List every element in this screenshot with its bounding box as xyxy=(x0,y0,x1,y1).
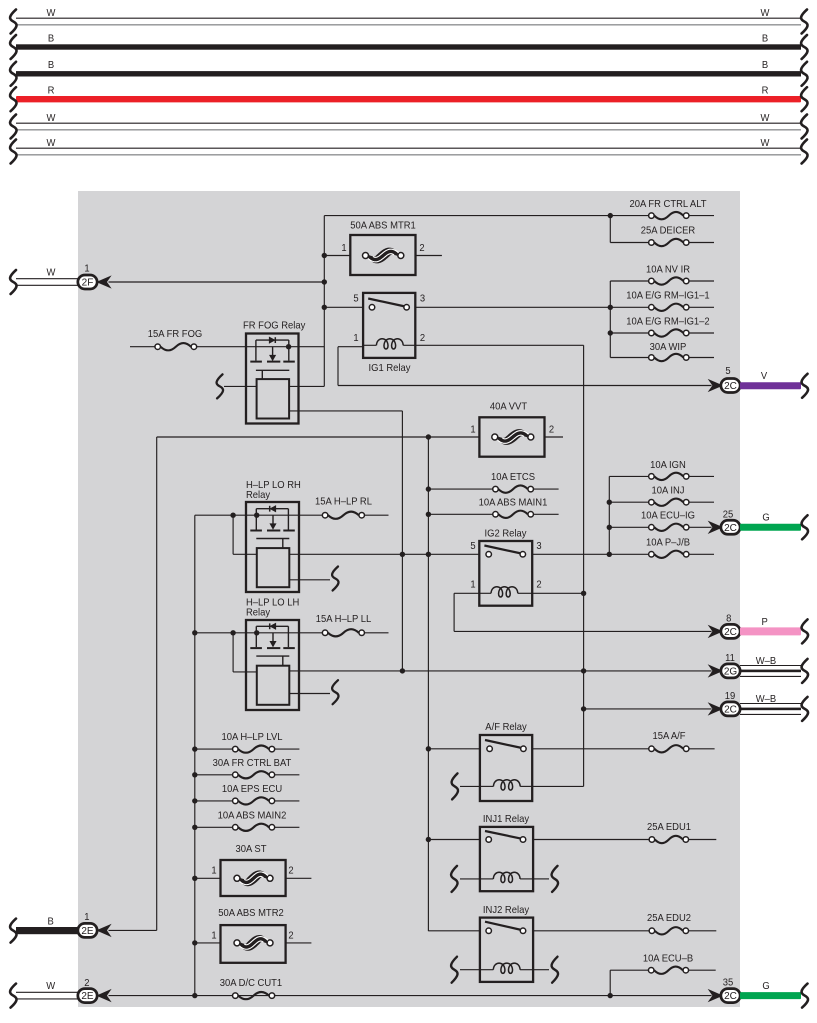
fuse bracket IGN group xyxy=(608,476,610,554)
connector 2E pin 2 xyxy=(78,978,109,1003)
svg-text:30A FR CTRL BAT: 30A FR CTRL BAT xyxy=(213,757,292,769)
fuse 30A D/C CUT1 xyxy=(220,977,283,999)
svg-text:50A ABS MTR1: 50A ABS MTR1 xyxy=(350,220,416,232)
svg-text:2: 2 xyxy=(419,243,425,255)
svg-text:19: 19 xyxy=(725,690,736,702)
fuse 30A WIP xyxy=(610,342,714,362)
svg-text:10A EPS ECU: 10A EPS ECU xyxy=(222,784,282,796)
wire bus B top to VVT xyxy=(157,436,480,438)
connector 2C pin 35 xyxy=(710,977,740,1003)
relay FR FOG diode rail xyxy=(256,337,289,343)
wire A/F coil to bus F xyxy=(532,785,583,787)
wire feed H-LP LH row xyxy=(192,630,246,635)
wire W-B (outside, 2C-19) xyxy=(740,694,808,721)
relay H-LP LO RH label xyxy=(246,480,301,502)
svg-text:1: 1 xyxy=(470,579,476,591)
junction NV-IR bank row2 xyxy=(608,305,613,310)
svg-text:11: 11 xyxy=(725,652,735,664)
fuse 30A FR CTRL BAT xyxy=(192,757,299,778)
svg-text:2C: 2C xyxy=(724,705,737,716)
svg-text:A/F Relay: A/F Relay xyxy=(485,722,526,734)
svg-text:W: W xyxy=(46,981,55,993)
svg-text:15A H–LP RL: 15A H–LP RL xyxy=(315,496,372,508)
svg-text:2G: 2G xyxy=(724,667,738,678)
svg-text:INJ2 Relay: INJ2 Relay xyxy=(483,905,529,917)
wire harness W6 (top, horizontal) xyxy=(10,137,807,163)
svg-text:1: 1 xyxy=(84,263,90,275)
svg-text:5: 5 xyxy=(353,293,359,305)
svg-text:25A EDU2: 25A EDU2 xyxy=(647,913,691,925)
fuse 10A ABS MAIN2 xyxy=(192,810,299,831)
wire IG1 pin2 to bus F xyxy=(415,344,583,346)
fuse 10A ETCS xyxy=(428,472,558,493)
relay FR FOG coil box xyxy=(257,379,290,418)
wire bus A to IG1 pin 5 xyxy=(324,306,363,308)
svg-text:INJ1 Relay: INJ1 Relay xyxy=(483,814,529,826)
junction IG1 pin5 row xyxy=(322,305,327,310)
relay FR FOG coil left stub xyxy=(217,374,257,398)
relay H-LP RH coil box xyxy=(257,548,290,587)
relay FR FOG through wire xyxy=(246,344,324,349)
svg-text:10A NV IR: 10A NV IR xyxy=(646,264,690,276)
junction ECU-IG row xyxy=(607,525,612,530)
relay H-LP LH coil feed jog xyxy=(233,633,257,672)
relay INJ1 coil left stub xyxy=(451,866,480,892)
svg-text:1: 1 xyxy=(353,333,359,345)
wire bus E (x=428) xyxy=(427,437,429,931)
fuse 25A EDU1 xyxy=(647,822,716,844)
fuse 10A INJ xyxy=(609,485,714,506)
fuse 20A FR CTRL ALT xyxy=(629,199,714,220)
svg-text:B: B xyxy=(48,33,55,45)
relay IG1 coil xyxy=(363,339,415,349)
wire bus E corner to INJ2 xyxy=(428,930,480,932)
svg-text:W: W xyxy=(761,137,770,149)
wire bus D (x=402, FR FOG out) xyxy=(401,411,403,671)
svg-text:20A FR CTRL ALT: 20A FR CTRL ALT xyxy=(629,199,706,211)
junction ETCS row xyxy=(426,486,431,491)
fuse 10A ABS MAIN1 xyxy=(428,497,558,518)
svg-text:W–B: W–B xyxy=(756,694,777,706)
relay IG2 coil xyxy=(479,587,532,597)
relay H-LP LH gate bar xyxy=(256,656,289,666)
svg-text:15A H–LP LL: 15A H–LP LL xyxy=(316,614,372,626)
svg-text:8: 8 xyxy=(726,613,732,625)
wire bottom row (2E-2 / D-C CUT1 / 2C-35) xyxy=(109,993,712,998)
wire bus C (x=195, fuse-bank feed) xyxy=(194,515,196,995)
relay H-LP LH lower stub xyxy=(289,680,338,704)
relay IG1 box xyxy=(353,293,425,374)
relay INJ1 box xyxy=(480,814,533,892)
svg-text:3: 3 xyxy=(420,293,426,305)
svg-text:10A P–J/B: 10A P–J/B xyxy=(646,537,690,549)
fuse 10A NV IR xyxy=(610,264,714,284)
svg-text:3: 3 xyxy=(536,541,542,553)
wire IG2 pin3 to P-J/B xyxy=(532,552,648,557)
relay H-LP LH diode rail xyxy=(256,623,288,629)
relay IG2 contact xyxy=(484,546,525,558)
wire harness W1 (top, horizontal) xyxy=(10,7,807,33)
junction A/F contact row xyxy=(426,746,431,751)
svg-text:25A DEICER: 25A DEICER xyxy=(641,225,696,237)
svg-text:2C: 2C xyxy=(724,627,737,638)
relay FR FOG legs+plates xyxy=(250,340,294,362)
svg-text:Relay: Relay xyxy=(246,607,270,619)
relay IG1 contact xyxy=(368,299,409,311)
junction block (gray box) xyxy=(78,191,740,1007)
fuse 30A ST xyxy=(192,844,311,896)
fuse bracket 20A/25A xyxy=(609,216,611,243)
relay INJ1 coil xyxy=(480,872,533,882)
junction ABS MAIN1 row xyxy=(426,512,431,517)
svg-text:FR FOG Relay: FR FOG Relay xyxy=(243,320,305,332)
svg-text:10A ECU–B: 10A ECU–B xyxy=(643,953,694,965)
fuse 10A P-J/B xyxy=(646,537,714,558)
relay H-LP LO RH box xyxy=(246,502,299,592)
svg-text:R: R xyxy=(48,85,55,97)
fuse 15A FR FOG xyxy=(130,329,246,351)
svg-text:W: W xyxy=(47,112,56,124)
fuse 25A EDU2 xyxy=(647,913,716,935)
wire IG1 pin1 jog to 2C-5 xyxy=(338,347,712,386)
svg-text:B: B xyxy=(48,60,55,72)
connector 2C pin 19 xyxy=(710,690,740,715)
svg-text:2: 2 xyxy=(288,930,294,942)
wire IG1 pin3 to fuse bank xyxy=(415,306,648,308)
svg-text:2: 2 xyxy=(420,333,426,345)
junction INJ1 contact row xyxy=(426,837,431,842)
wire feed H-LP RH row xyxy=(195,513,246,518)
relay INJ1 contact xyxy=(485,831,526,842)
svg-text:IG2 Relay: IG2 Relay xyxy=(485,528,527,540)
connector 2E pin 1 xyxy=(78,912,109,938)
fuse 15A H-LP RL xyxy=(299,496,389,519)
fuse 10A H–LP LVL xyxy=(192,732,299,753)
svg-text:1: 1 xyxy=(341,243,347,255)
relay H-LP RH coil feed jog xyxy=(233,515,257,554)
wire harness W5 (top, horizontal) xyxy=(10,112,807,138)
wire harness B2 (top, horizontal) xyxy=(10,33,807,59)
wire 2F to bus A xyxy=(109,281,325,283)
relay INJ1 coil right stub xyxy=(533,866,558,892)
wire 2E-1 to bus B xyxy=(109,929,157,931)
svg-text:G: G xyxy=(762,512,770,524)
svg-text:1: 1 xyxy=(211,930,217,942)
svg-text:2: 2 xyxy=(536,579,542,591)
svg-text:Relay: Relay xyxy=(246,490,270,502)
wire P (outside, 2C-8) xyxy=(740,617,808,644)
svg-text:5: 5 xyxy=(725,366,731,378)
wire harness B3 (top, horizontal) xyxy=(10,60,807,86)
svg-text:W: W xyxy=(761,7,770,19)
wire G (outside, 2C-25) xyxy=(740,512,808,539)
svg-text:B: B xyxy=(48,916,55,928)
relay H-LP LH coil box xyxy=(257,666,290,705)
wire bus A to 50A ABS MTR1 xyxy=(324,255,350,257)
junction on bus A top row xyxy=(608,213,613,218)
fuse 40A VVT xyxy=(470,401,563,457)
svg-text:W: W xyxy=(47,137,56,149)
svg-text:30A WIP: 30A WIP xyxy=(650,342,687,354)
relay FR FOG coil right wire to bus A xyxy=(289,385,324,387)
relay H-LP LH through wire xyxy=(246,630,299,635)
fuse bracket NV IR group xyxy=(609,281,611,358)
wire bus E to A/F xyxy=(428,748,480,750)
junction 50A ABS MTR1 row xyxy=(322,253,327,258)
wire bus F to 2C-19 xyxy=(581,706,712,711)
svg-text:2F: 2F xyxy=(82,278,94,289)
svg-text:30A D/C CUT1: 30A D/C CUT1 xyxy=(220,977,283,989)
connector 2F pin 1 xyxy=(78,263,109,289)
relay H-LP LH legs+plates xyxy=(250,626,294,648)
wire INJ2 pin to 25A EDU2 xyxy=(533,930,649,932)
svg-text:50A ABS MTR2: 50A ABS MTR2 xyxy=(218,908,284,920)
fuse 50A ABS MTR2 xyxy=(192,908,311,963)
svg-text:R: R xyxy=(762,85,769,97)
junction 2F row xyxy=(322,279,327,284)
junction VVT row / bus E xyxy=(426,434,431,439)
relay H-LP LO LH label xyxy=(246,597,299,619)
svg-text:W–B: W–B xyxy=(756,656,777,668)
svg-text:V: V xyxy=(761,371,768,383)
relay FR FOG gate bar xyxy=(256,370,289,379)
relay A/F coil left stub xyxy=(452,773,480,799)
wire H-LP RH out to IG2 pin5 xyxy=(289,552,479,557)
relay INJ2 coil left stub xyxy=(451,957,480,983)
svg-text:25A EDU1: 25A EDU1 xyxy=(647,822,691,834)
wire bus B (x=157, from 2E-1 up to VVT row) xyxy=(156,437,158,930)
svg-text:15A FR FOG: 15A FR FOG xyxy=(148,329,203,341)
relay H-LP RH through wire xyxy=(246,513,299,518)
wire INJ1 pin to 25A EDU1 xyxy=(533,839,649,841)
svg-text:10A ABS MAIN1: 10A ABS MAIN1 xyxy=(479,497,548,509)
fuse 10A EPS ECU xyxy=(192,784,299,805)
wire A/F pin to 15A A/F xyxy=(532,748,648,750)
connector 2C pin 5 xyxy=(710,366,740,393)
wire IG2 pin2 to bus F xyxy=(532,591,586,596)
junction INJ row xyxy=(607,500,612,505)
svg-text:10A E/G RM–IG1–1: 10A E/G RM–IG1–1 xyxy=(626,290,710,302)
svg-text:P: P xyxy=(762,617,769,629)
wire bus F (x=584, coil net) xyxy=(583,345,585,786)
svg-text:30A ST: 30A ST xyxy=(236,844,267,856)
svg-text:2C: 2C xyxy=(724,381,737,392)
relay INJ2 coil right stub xyxy=(533,957,558,983)
svg-text:2E: 2E xyxy=(81,926,94,937)
svg-text:10A E/G RM–IG1–2: 10A E/G RM–IG1–2 xyxy=(626,316,710,328)
svg-text:10A INJ: 10A INJ xyxy=(651,485,684,497)
relay H-LP LO LH box xyxy=(246,620,299,710)
junction bank row3 xyxy=(608,330,613,335)
connector 2C pin 8 xyxy=(710,613,740,638)
wire harness R4 (top, horizontal) xyxy=(10,85,807,111)
wire V (outside, 2C-5) xyxy=(740,371,808,398)
svg-text:G: G xyxy=(762,981,770,993)
relay H-LP RH legs+plates xyxy=(250,509,294,531)
wire G (outside, 2C-35) xyxy=(740,981,808,1008)
wire W-B (outside, 2G-11) xyxy=(740,656,808,683)
svg-text:5: 5 xyxy=(470,541,476,553)
relay INJ2 contact xyxy=(485,922,526,934)
relay INJ2 box xyxy=(480,905,533,982)
wire IG2 pin1 to 2C-8 xyxy=(454,593,711,631)
fuse 10A ECU-IG xyxy=(609,510,711,531)
wire H-LP LH out to 2G-11 xyxy=(289,668,711,673)
relay H-LP RH diode rail xyxy=(256,506,288,512)
svg-text:10A H–LP LVL: 10A H–LP LVL xyxy=(221,732,282,744)
svg-text:W: W xyxy=(761,112,770,124)
fuse 25A DEICER xyxy=(610,225,714,246)
svg-text:2: 2 xyxy=(288,865,294,877)
relay H-LP RH gate bar xyxy=(256,539,289,549)
svg-text:40A VVT: 40A VVT xyxy=(490,401,527,413)
svg-text:W: W xyxy=(47,267,56,279)
svg-text:10A ECU–IG: 10A ECU–IG xyxy=(641,510,695,522)
wire feed to 20A FR CTRL ALT (y=215.6) xyxy=(324,215,648,217)
svg-text:10A IGN: 10A IGN xyxy=(650,459,686,471)
svg-text:1: 1 xyxy=(470,424,476,436)
connector 2C pin 25 xyxy=(710,509,740,534)
wire bus A (x=324) xyxy=(323,216,325,387)
svg-text:1: 1 xyxy=(84,912,90,924)
wire bus E to INJ1 xyxy=(428,839,480,841)
svg-text:W: W xyxy=(47,7,56,19)
wire B to 2E-1 (outside) xyxy=(10,916,78,943)
wire W to 2E-2 (outside) xyxy=(10,981,78,1008)
relay FR FOG box xyxy=(243,320,305,424)
fuse bracket ECU-B xyxy=(609,970,611,995)
relay INJ2 coil xyxy=(480,963,533,973)
relay H-LP RH lower stub xyxy=(289,567,338,591)
fuse 10A E/G RM-IG1-2 xyxy=(610,316,714,336)
relay FR FOG output wire to bus D xyxy=(289,410,402,412)
svg-text:35: 35 xyxy=(723,977,734,989)
relay A/F coil xyxy=(480,780,532,790)
svg-text:10A ETCS: 10A ETCS xyxy=(491,472,535,484)
fuse 10A E/G RM-IG1-1 xyxy=(626,290,714,311)
svg-text:10A ABS MAIN2: 10A ABS MAIN2 xyxy=(218,810,287,822)
fuse 50A ABS MTR1 xyxy=(341,220,442,275)
svg-text:B: B xyxy=(762,33,769,45)
connector 2G pin 11 xyxy=(710,652,740,677)
fuse 15A H-LP LL xyxy=(299,614,389,637)
svg-text:2C: 2C xyxy=(724,991,737,1002)
relay A/F box xyxy=(480,722,532,801)
svg-text:2E: 2E xyxy=(81,991,94,1002)
fuse 10A ECU-B xyxy=(610,953,716,974)
svg-text:15A A/F: 15A A/F xyxy=(652,730,685,742)
svg-text:2C: 2C xyxy=(724,523,737,534)
svg-text:1: 1 xyxy=(211,865,217,877)
fuse 10A IGN xyxy=(609,459,714,480)
relay IG2 box xyxy=(470,528,542,606)
relay A/F contact xyxy=(485,740,526,752)
svg-text:B: B xyxy=(762,60,769,72)
wire W to 2F (outside) xyxy=(10,267,78,294)
fuse 15A A/F xyxy=(649,730,715,752)
svg-text:IG1 Relay: IG1 Relay xyxy=(369,363,411,375)
svg-text:2: 2 xyxy=(549,424,555,436)
